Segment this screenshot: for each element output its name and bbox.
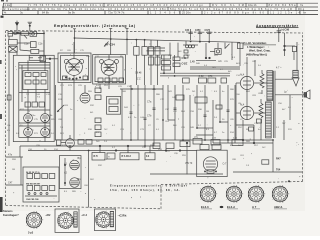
label C98	[281, 28, 290, 31]
svg-text:AL4: AL4	[240, 74, 245, 77]
labels A1 A2	[64, 157, 81, 181]
svg-text:R47: R47	[276, 157, 281, 160]
labels right band	[194, 137, 238, 140]
can lower boxes	[149, 57, 161, 65]
svg-text:60 61 62a 63 64 65e 66 6g 68 6: 60 61 62a 63 64 65e 66 6g 68 6gn 70 71 g…	[200, 7, 292, 11]
socket labels right	[201, 205, 287, 209]
tube label T02	[106, 67, 111, 70]
svg-text:C47: C47	[8, 182, 13, 185]
wire down right of driver	[88, 151, 90, 208]
speaker field coil	[292, 70, 300, 86]
svg-text:C34: C34	[185, 29, 190, 32]
wire to speaker	[275, 42, 304, 95]
edge smudge left mid	[0, 114, 2, 119]
labels C52 C70	[199, 75, 214, 78]
label R2	[45, 213, 51, 217]
note text block	[244, 41, 277, 56]
svg-text:W4 W5 W6 W7: W4 W5 W6 W7	[26, 183, 41, 186]
label C2	[81, 213, 88, 217]
rectifier box terminal labels	[26, 171, 41, 201]
capacitor C1a	[24, 43, 29, 46]
svg-text:AB2-3.: AB2-3.	[274, 205, 283, 209]
bias network right	[284, 33, 297, 60]
parts table row 2 text	[4, 7, 305, 11]
svg-text:B 5.4/0.3: B 5.4/0.3	[122, 155, 132, 158]
svg-text:1 2a: 1 2a	[5, 3, 11, 7]
output tube AL4 lower	[236, 106, 266, 119]
text Eingangsspannungsteiler	[110, 185, 187, 192]
scan noise specks	[13, 32, 300, 200]
mid ladder verticals	[163, 85, 273, 143]
tube label T01	[71, 66, 76, 69]
svg-text:11 12 13e 14: 11 12 13e 14	[270, 11, 300, 15]
output stage box VW70	[186, 142, 227, 176]
svg-text:Eingangsspannungsteiler: 6 Ste: Eingangsspannungsteiler: 6 Stelliger	[110, 185, 187, 188]
svg-text:40 41 42 43 44 45 46 47 48n: 40 41 42 43 44 45 46 47 48n	[108, 7, 166, 11]
wires into rectifier	[6, 157, 23, 185]
corner marks	[1, 0, 9, 18]
svg-text:C7a: C7a	[147, 101, 152, 104]
parts table row 1 text	[5, 3, 304, 7]
magic eye tube	[57, 135, 93, 147]
socket A7	[248, 185, 265, 203]
IF stage box T01	[58, 42, 91, 83]
bottom solid rail	[150, 140, 302, 174]
svg-text:84 8b: 84 8b	[42, 11, 49, 15]
svg-text:7t 75 76 77 78 7g 34a: 7t 75 76 77 78 7g 34a	[28, 3, 70, 7]
svg-text:RC g: RC g	[298, 7, 305, 11]
svg-text:C.52: C.52	[199, 75, 205, 78]
svg-text:Empfangsverstärker. (Zeichnung: Empfangsverstärker. (Zeichnung 1a)	[54, 24, 135, 28]
labels C7a C7b	[147, 101, 152, 118]
RC ladder boxes left-mid	[95, 88, 101, 137]
dashed chassis border	[6, 31, 303, 209]
svg-text:T02: T02	[106, 67, 111, 70]
labels 47a C47	[8, 154, 13, 185]
input row specks	[13, 32, 38, 35]
pot arrow	[56, 85, 65, 140]
bottom left caption	[3, 209, 19, 217]
output transformer winding lower	[266, 102, 272, 138]
title Ausgangsverstaerker	[256, 24, 299, 28]
capacitor C98	[277, 28, 281, 42]
svg-text:AL4: AL4	[240, 104, 245, 107]
grid resistor lower	[259, 99, 263, 123]
IF can mid	[107, 96, 121, 114]
svg-text:EL2-3: EL2-3	[201, 205, 209, 209]
socket EL2-3	[200, 185, 217, 203]
parts table frame	[2, 3, 318, 14]
svg-text:(+) C98: (+) C98	[281, 28, 290, 31]
svg-text:2 3eichnungen 2b 3b 4 5 6u 6b: 2 3eichnungen 2b 3b 4 5 6u 6b 7a 8a 9 10…	[4, 7, 104, 11]
svg-text:24 25 26 27 2t: 24 25 26 27 2t	[26, 171, 40, 174]
top bus wires	[8, 29, 240, 56]
svg-text:72a 73 74 7tt: 72a 73 74 7tt	[108, 11, 125, 15]
mixer input box	[40, 40, 58, 62]
label C2R	[118, 213, 128, 217]
svg-text:O.7: O.7	[223, 163, 228, 166]
title Empfangsverstaerker	[54, 24, 135, 28]
left block inner labels	[32, 97, 54, 132]
driver tubes box	[59, 156, 81, 189]
socket 2R2 left	[26, 211, 43, 229]
label AL4 lower	[240, 104, 245, 107]
label B.Tr	[94, 155, 150, 158]
parts table row 3 text	[4, 11, 307, 15]
left block inner cluster	[7, 58, 50, 142]
label AL4	[240, 74, 245, 77]
label 2-p3	[28, 231, 34, 234]
svg-text:Kunstlagen?: Kunstlagen?	[3, 213, 19, 217]
center horizontal wires	[160, 55, 230, 76]
antenna coil E.Tr	[9, 40, 18, 53]
svg-text:47a: 47a	[8, 154, 13, 157]
labels R47 T64	[276, 157, 290, 182]
svg-text:50g 51gn 5t u4: 50g 51gn 5t u4	[170, 7, 198, 11]
left block resistor row	[25, 102, 44, 107]
svg-text:2t 2u 87 88 89 8gn 8t 90: 2t 2u 87 88 89 8gn 8t 90	[204, 11, 264, 15]
bus boxes row	[92, 141, 190, 160]
svg-text:W12 13 14 15 16 17 18 19 20 21: W12 13 14 15 16 17 18 19 20 21 22 23 24 …	[107, 3, 203, 7]
mid small boxes	[176, 95, 222, 109]
arrow mark	[104, 42, 109, 47]
labels VW70 O7	[185, 162, 227, 166]
svg-text:C35: C35	[195, 30, 200, 32]
component value labels scatter	[12, 50, 293, 193]
labels C41-C43	[182, 57, 196, 66]
svg-text:2-p3: 2-p3	[28, 231, 34, 234]
svg-text:82 83 84 85a: 82 83 84 85a	[269, 3, 296, 7]
svg-text:C8 #8: C8 #8	[135, 71, 142, 74]
output transformer winding upper	[267, 71, 273, 101]
svg-text:(489:Ring Werl.): (489:Ring Werl.)	[246, 52, 267, 56]
boxed socket 2	[95, 209, 116, 231]
svg-text:C42Z: C42Z	[182, 63, 188, 66]
IF stage box T02	[93, 55, 126, 84]
svg-text:⊣C.2: ⊣C.2	[81, 213, 88, 217]
filter capacitors top center	[188, 29, 211, 43]
svg-text:⊣R2: ⊣R2	[45, 213, 51, 217]
svg-text:VW 70: VW 70	[185, 162, 193, 165]
svg-text:C1b: C1b	[38, 43, 43, 46]
svg-text:RV 6K 6L 6M: RV 6K 6L 6M	[212, 3, 244, 7]
svg-text:⊣C2R↯: ⊣C2R↯	[118, 213, 128, 217]
mixer tube quad	[24, 114, 50, 137]
svg-text:1.45: 1.45	[190, 60, 195, 63]
svg-text:C41: C41	[182, 57, 187, 60]
svg-text:34 35n 36n 3t: 34 35n 36n 3t	[73, 3, 103, 7]
label Lp	[276, 67, 287, 94]
input filter cluster	[8, 31, 44, 60]
label HF C34	[105, 43, 115, 47]
svg-text:C70: C70	[208, 75, 213, 78]
svg-text:25 26n: 25 26n	[182, 11, 191, 15]
socket AB2-3	[272, 185, 289, 203]
svg-text:1M: 1M	[12, 169, 15, 171]
svg-text:6e: 6e	[303, 11, 307, 15]
svg-text:10a 1b: 10a 1b	[248, 3, 257, 7]
coil L8	[183, 45, 198, 48]
svg-text:1 2 3 4 5 6 7: 1 2 3 4 5 6 7	[150, 11, 180, 15]
socket EL2-d	[226, 185, 243, 203]
resistor row under T02	[98, 78, 124, 83]
earth symbol	[28, 22, 32, 31]
extra wires input section	[9, 36, 290, 146]
svg-text:7a: 7a	[300, 3, 304, 7]
edge smudge left bottom	[0, 197, 3, 212]
labels C34 C35 C37	[185, 29, 209, 32]
label C8	[135, 71, 142, 80]
left block outer box	[13, 55, 54, 141]
edge tick upper	[0, 60, 2, 64]
transformer core lines	[274, 71, 275, 138]
svg-text:Ausgangsverstärker: Ausgangsverstärker	[256, 24, 299, 28]
svg-text:9a 9b: 9a 9b	[68, 11, 75, 15]
svg-text:1M: 1M	[206, 111, 209, 113]
capacitor C1b	[38, 43, 43, 46]
svg-text:C84 C85 C86: C84 C85 C86	[26, 198, 39, 201]
box C64	[262, 160, 269, 164]
long bus wires lower	[20, 140, 273, 157]
svg-text:T01: T01	[71, 66, 76, 69]
svg-text:T64: T64	[276, 168, 281, 171]
trimmer box	[17, 42, 36, 48]
svg-text:4t: 4t	[4, 11, 7, 15]
svg-text:C7b: C7b	[147, 115, 152, 118]
rectifier box left	[23, 167, 59, 202]
IF transformer cans right of T02	[134, 40, 165, 85]
stacked boxes C41 C42 C43	[162, 55, 181, 70]
right band components	[193, 119, 262, 146]
svg-text:15m, 15k, 150 Ohm(e), 6V, 6K,: 15m, 15k, 150 Ohm(e), 6V, 6K, 1A.	[110, 189, 180, 192]
bus extras	[70, 145, 197, 159]
boxed socket 1	[55, 209, 79, 232]
antenna	[15, 21, 19, 31]
resistor row center bottom	[183, 78, 227, 83]
svg-text:Sterens: Sterens	[3, 209, 13, 213]
grid resistor upper	[260, 70, 264, 94]
coil L1a	[20, 49, 44, 53]
svg-text:B.Tr: B.Tr	[94, 156, 99, 158]
labels C4t 47t	[7, 124, 11, 132]
svg-text:3u: 3u	[20, 11, 24, 15]
svg-text:C37: C37	[205, 30, 210, 32]
svg-text:Z Z: Z Z	[137, 78, 141, 81]
output tube AL4 upper	[236, 57, 267, 90]
detector box	[184, 43, 243, 69]
svg-text:EL2-d: EL2-d	[227, 205, 235, 209]
osc tube single	[62, 83, 109, 141]
mid verticals left	[122, 85, 156, 146]
speaker small	[304, 90, 310, 99]
svg-text:A 7: A 7	[252, 205, 257, 209]
